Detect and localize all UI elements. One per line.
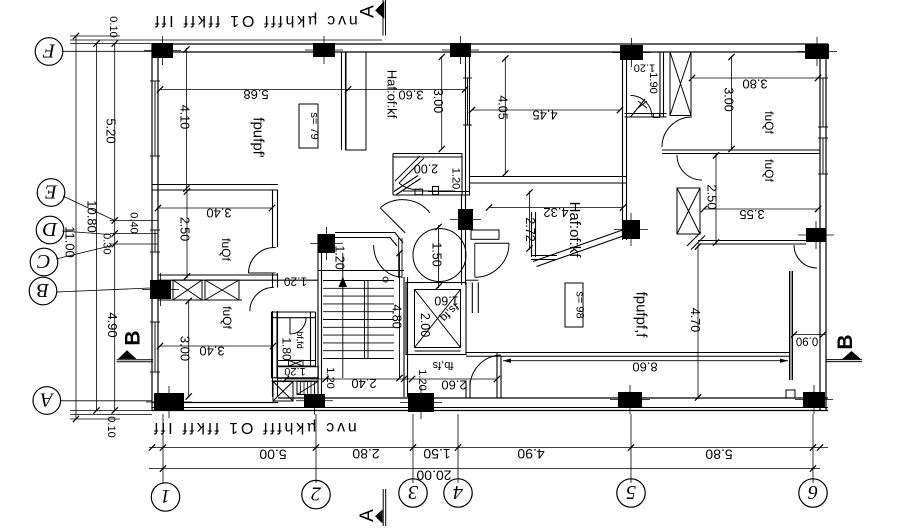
svg-text:5.80: 5.80 [705, 447, 732, 463]
svg-text:fuQf: fuQf [762, 159, 776, 182]
svg-text:4: 4 [453, 481, 463, 503]
svg-text:nvc µkhfff O1 ffkff Iff: nvc µkhfff O1 ffkff Iff [152, 12, 358, 29]
svg-text:3.60: 3.60 [398, 88, 423, 103]
svg-text:0.30: 0.30 [100, 233, 112, 254]
svg-text:1.50: 1.50 [430, 242, 444, 266]
svg-text:D: D [42, 218, 58, 240]
svg-text:2.72: 2.72 [523, 217, 537, 241]
svg-text:2.40: 2.40 [351, 376, 376, 391]
svg-text:fpufpf': fpufpf' [250, 117, 267, 158]
svg-text:3: 3 [408, 481, 419, 503]
svg-text:C: C [37, 250, 51, 272]
svg-text:3.00: 3.00 [178, 336, 193, 361]
svg-text:Haf:of:kf: Haf:of:kf [385, 70, 400, 119]
svg-text:3.80: 3.80 [742, 77, 767, 92]
svg-text:1.20: 1.20 [333, 245, 347, 269]
svg-text:8.60: 8.60 [632, 360, 657, 375]
svg-text:4.90: 4.90 [105, 312, 120, 337]
svg-text:1.20: 1.20 [283, 275, 307, 289]
svg-text:0.40: 0.40 [128, 212, 140, 233]
svg-text:2.60: 2.60 [441, 378, 466, 393]
svg-text:B: B [122, 330, 145, 345]
svg-text:5: 5 [626, 481, 636, 503]
svg-text:bf,fd: bf,fd [295, 331, 305, 349]
svg-text:1.20: 1.20 [416, 369, 428, 390]
svg-text:fuQf: fuQf [220, 306, 234, 329]
svg-text:0.10: 0.10 [105, 416, 117, 437]
svg-text:A: A [40, 389, 55, 411]
svg-text:4.80: 4.80 [390, 304, 404, 328]
svg-text:5.00: 5.00 [259, 447, 286, 463]
svg-text:4.45: 4.45 [532, 108, 557, 123]
svg-text:fuQf: fuQf [219, 238, 233, 261]
svg-text:1.50: 1.50 [423, 446, 450, 462]
svg-text:nvc µkhfff O1 ffkff Iff: nvc µkhfff O1 ffkff Iff [151, 419, 357, 436]
svg-text:B: B [834, 334, 857, 349]
svg-text:2.00: 2.00 [418, 313, 432, 337]
svg-text:4.05: 4.05 [496, 95, 510, 119]
svg-text:0.90: 0.90 [796, 335, 818, 347]
svg-text:2.50: 2.50 [178, 217, 192, 241]
svg-text:6: 6 [808, 481, 818, 503]
svg-text:2.00: 2.00 [414, 162, 438, 176]
svg-text:1.20: 1.20 [324, 367, 336, 388]
svg-text:3.40: 3.40 [206, 206, 231, 221]
svg-text:3.00: 3.00 [722, 87, 736, 111]
svg-text:2.80: 2.80 [352, 446, 379, 462]
svg-text:1.20: 1.20 [284, 365, 305, 377]
svg-text:1.90: 1.90 [647, 72, 659, 93]
svg-text:A: A [357, 509, 378, 522]
svg-text:fpufpf,f: fpufpf,f [633, 292, 650, 339]
svg-text:1.20: 1.20 [450, 168, 462, 189]
svg-text:0.10: 0.10 [107, 16, 119, 37]
svg-text:F: F [42, 40, 56, 62]
svg-text:3.40: 3.40 [199, 344, 224, 359]
svg-text:A: A [358, 5, 379, 18]
svg-text:fuQf: fuQf [762, 111, 776, 134]
svg-text:s= 98: s= 98 [574, 291, 586, 318]
svg-text:2: 2 [311, 483, 321, 505]
svg-text:5.20: 5.20 [104, 118, 119, 143]
svg-text:4.70: 4.70 [688, 308, 702, 332]
svg-text:1.80: 1.80 [280, 337, 294, 361]
svg-text:E: E [45, 181, 58, 203]
svg-text:5.68: 5.68 [243, 87, 268, 102]
svg-text:4.32: 4.32 [543, 205, 568, 220]
svg-text:10.80: 10.80 [85, 200, 100, 233]
svg-text:s= 79: s= 79 [308, 112, 320, 139]
svg-text:4.90: 4.90 [517, 446, 544, 462]
svg-text:1: 1 [161, 485, 171, 507]
svg-text:B: B [37, 279, 49, 301]
svg-text:Haf:of:kf: Haf:of:kf [566, 202, 583, 259]
svg-text:3.55: 3.55 [739, 207, 764, 222]
svg-text:4.10: 4.10 [178, 105, 192, 129]
svg-text:3.00: 3.00 [431, 89, 445, 113]
svg-text:fb,fs: fb,fs [432, 359, 453, 371]
